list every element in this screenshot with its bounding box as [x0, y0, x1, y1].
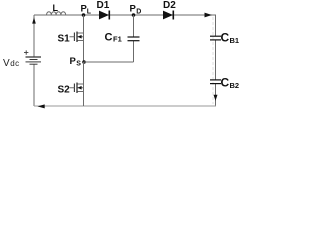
battery Vdc	[26, 56, 42, 58]
svg-text:F1: F1	[113, 35, 122, 44]
svg-text:C: C	[105, 31, 113, 43]
wire: faint parallel line beside right rail	[212, 17, 214, 104]
svg-text:S: S	[76, 60, 81, 67]
wire: PS horizontal to CF1 branch	[84, 61, 134, 63]
svg-text:S2: S2	[58, 85, 71, 96]
current arrow right on top rail	[205, 13, 213, 18]
wire: S1 source down to node PS	[83, 41, 85, 63]
svg-text:dc: dc	[10, 59, 19, 68]
inductor L	[47, 12, 66, 15]
transistor S2 (MOSFET)	[77, 84, 84, 92]
wire: right rail x=215 (gaps for CB1, CB2)	[215, 15, 217, 106]
svg-text:C: C	[221, 76, 230, 90]
node PS	[82, 60, 86, 64]
wire: CF1 vertical from PD	[133, 15, 135, 62]
svg-text:L: L	[87, 8, 92, 15]
diode D2	[163, 11, 173, 20]
current arrow down on right rail	[214, 95, 218, 101]
svg-text:D1: D1	[97, 0, 110, 11]
current arrow left on bottom rail	[37, 104, 44, 108]
svg-text:S1: S1	[58, 34, 71, 45]
svg-text:B1: B1	[230, 36, 240, 45]
capacitor CF1	[128, 36, 140, 38]
svg-text:L: L	[53, 3, 59, 13]
capacitor CB2	[210, 79, 221, 81]
node PD	[132, 13, 136, 17]
capacitor CB1	[210, 35, 221, 37]
wire: middle branch drain of S1 from PL	[83, 15, 85, 33]
wire: S2 source down to bottom rail	[83, 92, 85, 107]
wire: PS down to S2 drain	[83, 62, 85, 84]
diode D1	[99, 11, 109, 20]
wire: bottom rail y=105.8	[34, 105, 216, 107]
wire: left rail x=33.5 (gap for battery)	[33, 15, 35, 106]
svg-text:D: D	[136, 8, 141, 15]
svg-text:B2: B2	[230, 81, 240, 90]
svg-text:V: V	[3, 58, 10, 69]
transistor S1 (MOSFET)	[77, 33, 84, 41]
current arrow up on left rail	[32, 17, 36, 23]
wire: top rail y=15 from left corner to right corner	[34, 14, 216, 16]
svg-text:D2: D2	[163, 0, 176, 11]
svg-text:C: C	[221, 30, 230, 44]
node PL	[82, 13, 86, 17]
